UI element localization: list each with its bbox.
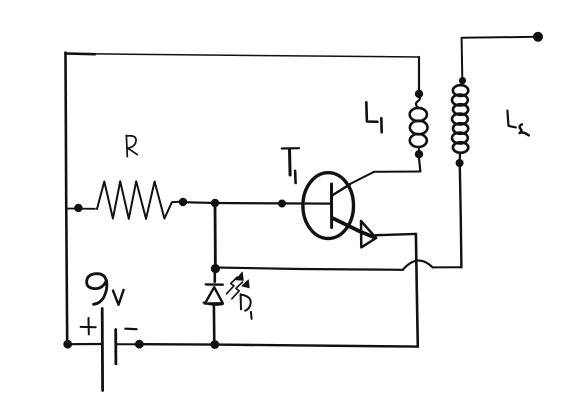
wire battery left stub: [68, 343, 101, 345]
wire L1 top stub: [418, 57, 420, 94]
node D1 bottom: [210, 340, 219, 349]
label battery plus: [81, 318, 96, 334]
wire top rail: [66, 54, 420, 58]
wire base junction down to D1: [214, 203, 217, 269]
label battery minus: [125, 328, 136, 331]
node battery right: [135, 340, 144, 349]
node R left: [74, 204, 82, 212]
LED arrow 1 of D1: [227, 272, 244, 294]
LED arrow 2 of D1: [232, 280, 249, 299]
wire L2 top stub: [461, 39, 464, 80]
resistor R: [97, 181, 181, 219]
label L1: [366, 102, 381, 132]
wire emitter to corner: [376, 234, 416, 235]
wire hop over emitter line: [403, 261, 433, 270]
wire base: [183, 202, 330, 203]
wire L2 vertical: [460, 166, 462, 267]
wire bottom rail: [139, 344, 417, 346]
inductor L2: [452, 83, 468, 159]
wire left vertical rail: [66, 53, 68, 344]
node L1 bottom: [415, 150, 423, 158]
wire R left stub: [66, 208, 95, 210]
node L1 top: [415, 90, 423, 98]
node R right: [179, 198, 187, 206]
diode D1: [204, 271, 223, 344]
label D1: [241, 294, 252, 319]
node L2 bottom: [456, 159, 464, 167]
wire output top: [462, 37, 538, 38]
label T1: [282, 148, 299, 183]
battery 9V negative plate: [114, 330, 117, 364]
wire L1 bottom stub: [419, 158, 420, 171]
inductor L1: [410, 95, 428, 153]
label L2: [507, 111, 528, 136]
label 9V: [87, 274, 124, 305]
label R: [126, 135, 137, 156]
wire collector to L1: [333, 172, 421, 195]
node base junction: [211, 199, 219, 207]
wire hop to L2: [433, 266, 462, 268]
wire feedback row: [215, 268, 402, 270]
node L2 top: [459, 77, 466, 84]
wire battery right stub: [117, 343, 135, 345]
battery 9V positive plate: [101, 309, 104, 391]
transistor T1: [303, 173, 376, 248]
node battery left: [63, 340, 72, 349]
wire emitter vertical: [416, 234, 418, 347]
node D1 top: [211, 264, 220, 273]
node output terminal: [533, 32, 543, 42]
node base left: [278, 200, 286, 208]
